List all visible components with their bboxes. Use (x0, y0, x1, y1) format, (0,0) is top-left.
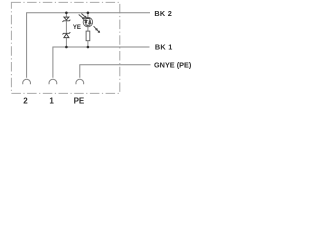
contact 1 socket arc (49, 79, 57, 84)
wire BK2 rail with bend down to contact 2 (27, 13, 150, 78)
housing outline (dash-dot enclosure) (11, 2, 119, 93)
contact 2 socket arc (23, 79, 31, 84)
wire suppressor branch top (65, 13, 67, 17)
LED H1 internal antiparallel diodes (85, 17, 91, 26)
LED emission arrow 2 (upper-left segment) (81, 14, 86, 18)
svg-text:1: 1 (49, 97, 54, 106)
LED H1 circle (83, 17, 93, 27)
svg-text:BK 2: BK 2 (154, 9, 172, 18)
svg-text:GNYE (PE): GNYE (PE) (154, 60, 192, 69)
wire resistor to BK1 rail (87, 41, 89, 47)
junction dot top rail / suppressor (65, 12, 68, 15)
wire between diodes (65, 21, 67, 33)
diode V2 (zener, cathode up) (63, 32, 71, 37)
diode V1 (zener, cathode down) (63, 17, 71, 22)
wire LED to resistor (87, 27, 89, 31)
wire LED branch top (87, 13, 89, 18)
junction dot top rail / LED (87, 12, 90, 15)
contact PE socket arc (76, 79, 84, 84)
svg-text:BK 1: BK 1 (155, 43, 173, 52)
svg-text:PE: PE (74, 97, 85, 106)
svg-text:2: 2 (23, 97, 28, 106)
LED emission arrow 1 (upper-left segment) (79, 15, 84, 20)
wire suppressor branch bottom (65, 38, 67, 47)
wire GNYE rail with bend down to contact PE (80, 65, 151, 78)
resistor R1 (86, 31, 90, 41)
junction dot BK1 rail / suppressor (65, 46, 68, 49)
wire BK1 rail with bend down to contact 1 (53, 47, 150, 78)
junction dot BK1 rail / resistor (87, 46, 90, 49)
svg-text:YE: YE (73, 25, 81, 31)
LED emission arrow 1 (lower-right segment) (94, 26, 98, 30)
LED emission arrow 2 (lower-right segment) (96, 28, 100, 32)
